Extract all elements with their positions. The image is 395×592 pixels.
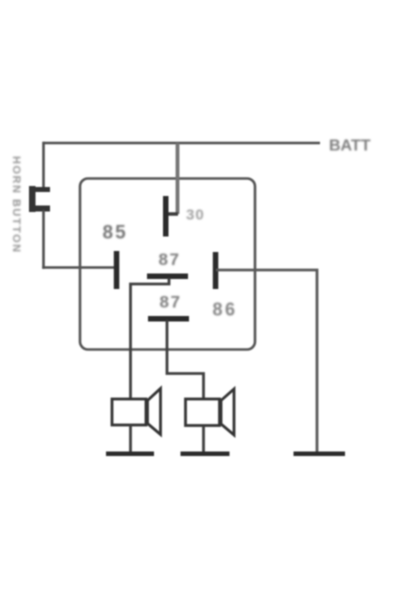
horn H1 bell (148, 389, 161, 435)
pin 87 lower blade (148, 316, 189, 322)
pin 30 blade (163, 196, 169, 237)
ground G1 (106, 452, 154, 457)
svg-text:86: 86 (213, 300, 238, 320)
svg-text:85: 85 (103, 223, 128, 244)
wire: pin 87 upper to horn 1 (jog left then down) (131, 278, 170, 400)
ground G3 (relay coil via 86) (294, 452, 346, 457)
svg-text:BATT: BATT (329, 138, 371, 155)
wire: horn 1 to ground (129, 425, 132, 452)
pin 86 blade (213, 252, 219, 289)
wire: drop from battery feed to pin 30 (176, 143, 180, 214)
horn H1 body (112, 399, 146, 425)
pin 85 blade (114, 251, 120, 289)
horn H2 body (186, 399, 220, 426)
wire: pin 86 out right side (216, 270, 317, 452)
svg-text:87: 87 (160, 293, 182, 312)
horn button switch S1 (29, 186, 50, 212)
wire: horn 2 to ground (202, 426, 205, 452)
wire: battery feed top horizontal (44, 142, 321, 145)
wire: pin 87 lower to horn 2 (down, jog right, down) (167, 320, 204, 400)
wire: below horn button down left side (42, 210, 45, 269)
wire: horizontal into pin 85 (42, 266, 115, 269)
ground G2 (181, 452, 230, 457)
wire: left drop from battery to horn button (42, 142, 45, 188)
relay K1 outline (80, 179, 255, 350)
svg-text:87: 87 (159, 250, 181, 269)
pin 87 upper blade (147, 274, 188, 280)
svg-text:HORN BUTTON: HORN BUTTON (10, 156, 22, 254)
wire: nub joining drop to pin 30 blade (166, 212, 178, 216)
horn H2 bell (221, 389, 234, 435)
svg-text:30: 30 (186, 207, 205, 224)
